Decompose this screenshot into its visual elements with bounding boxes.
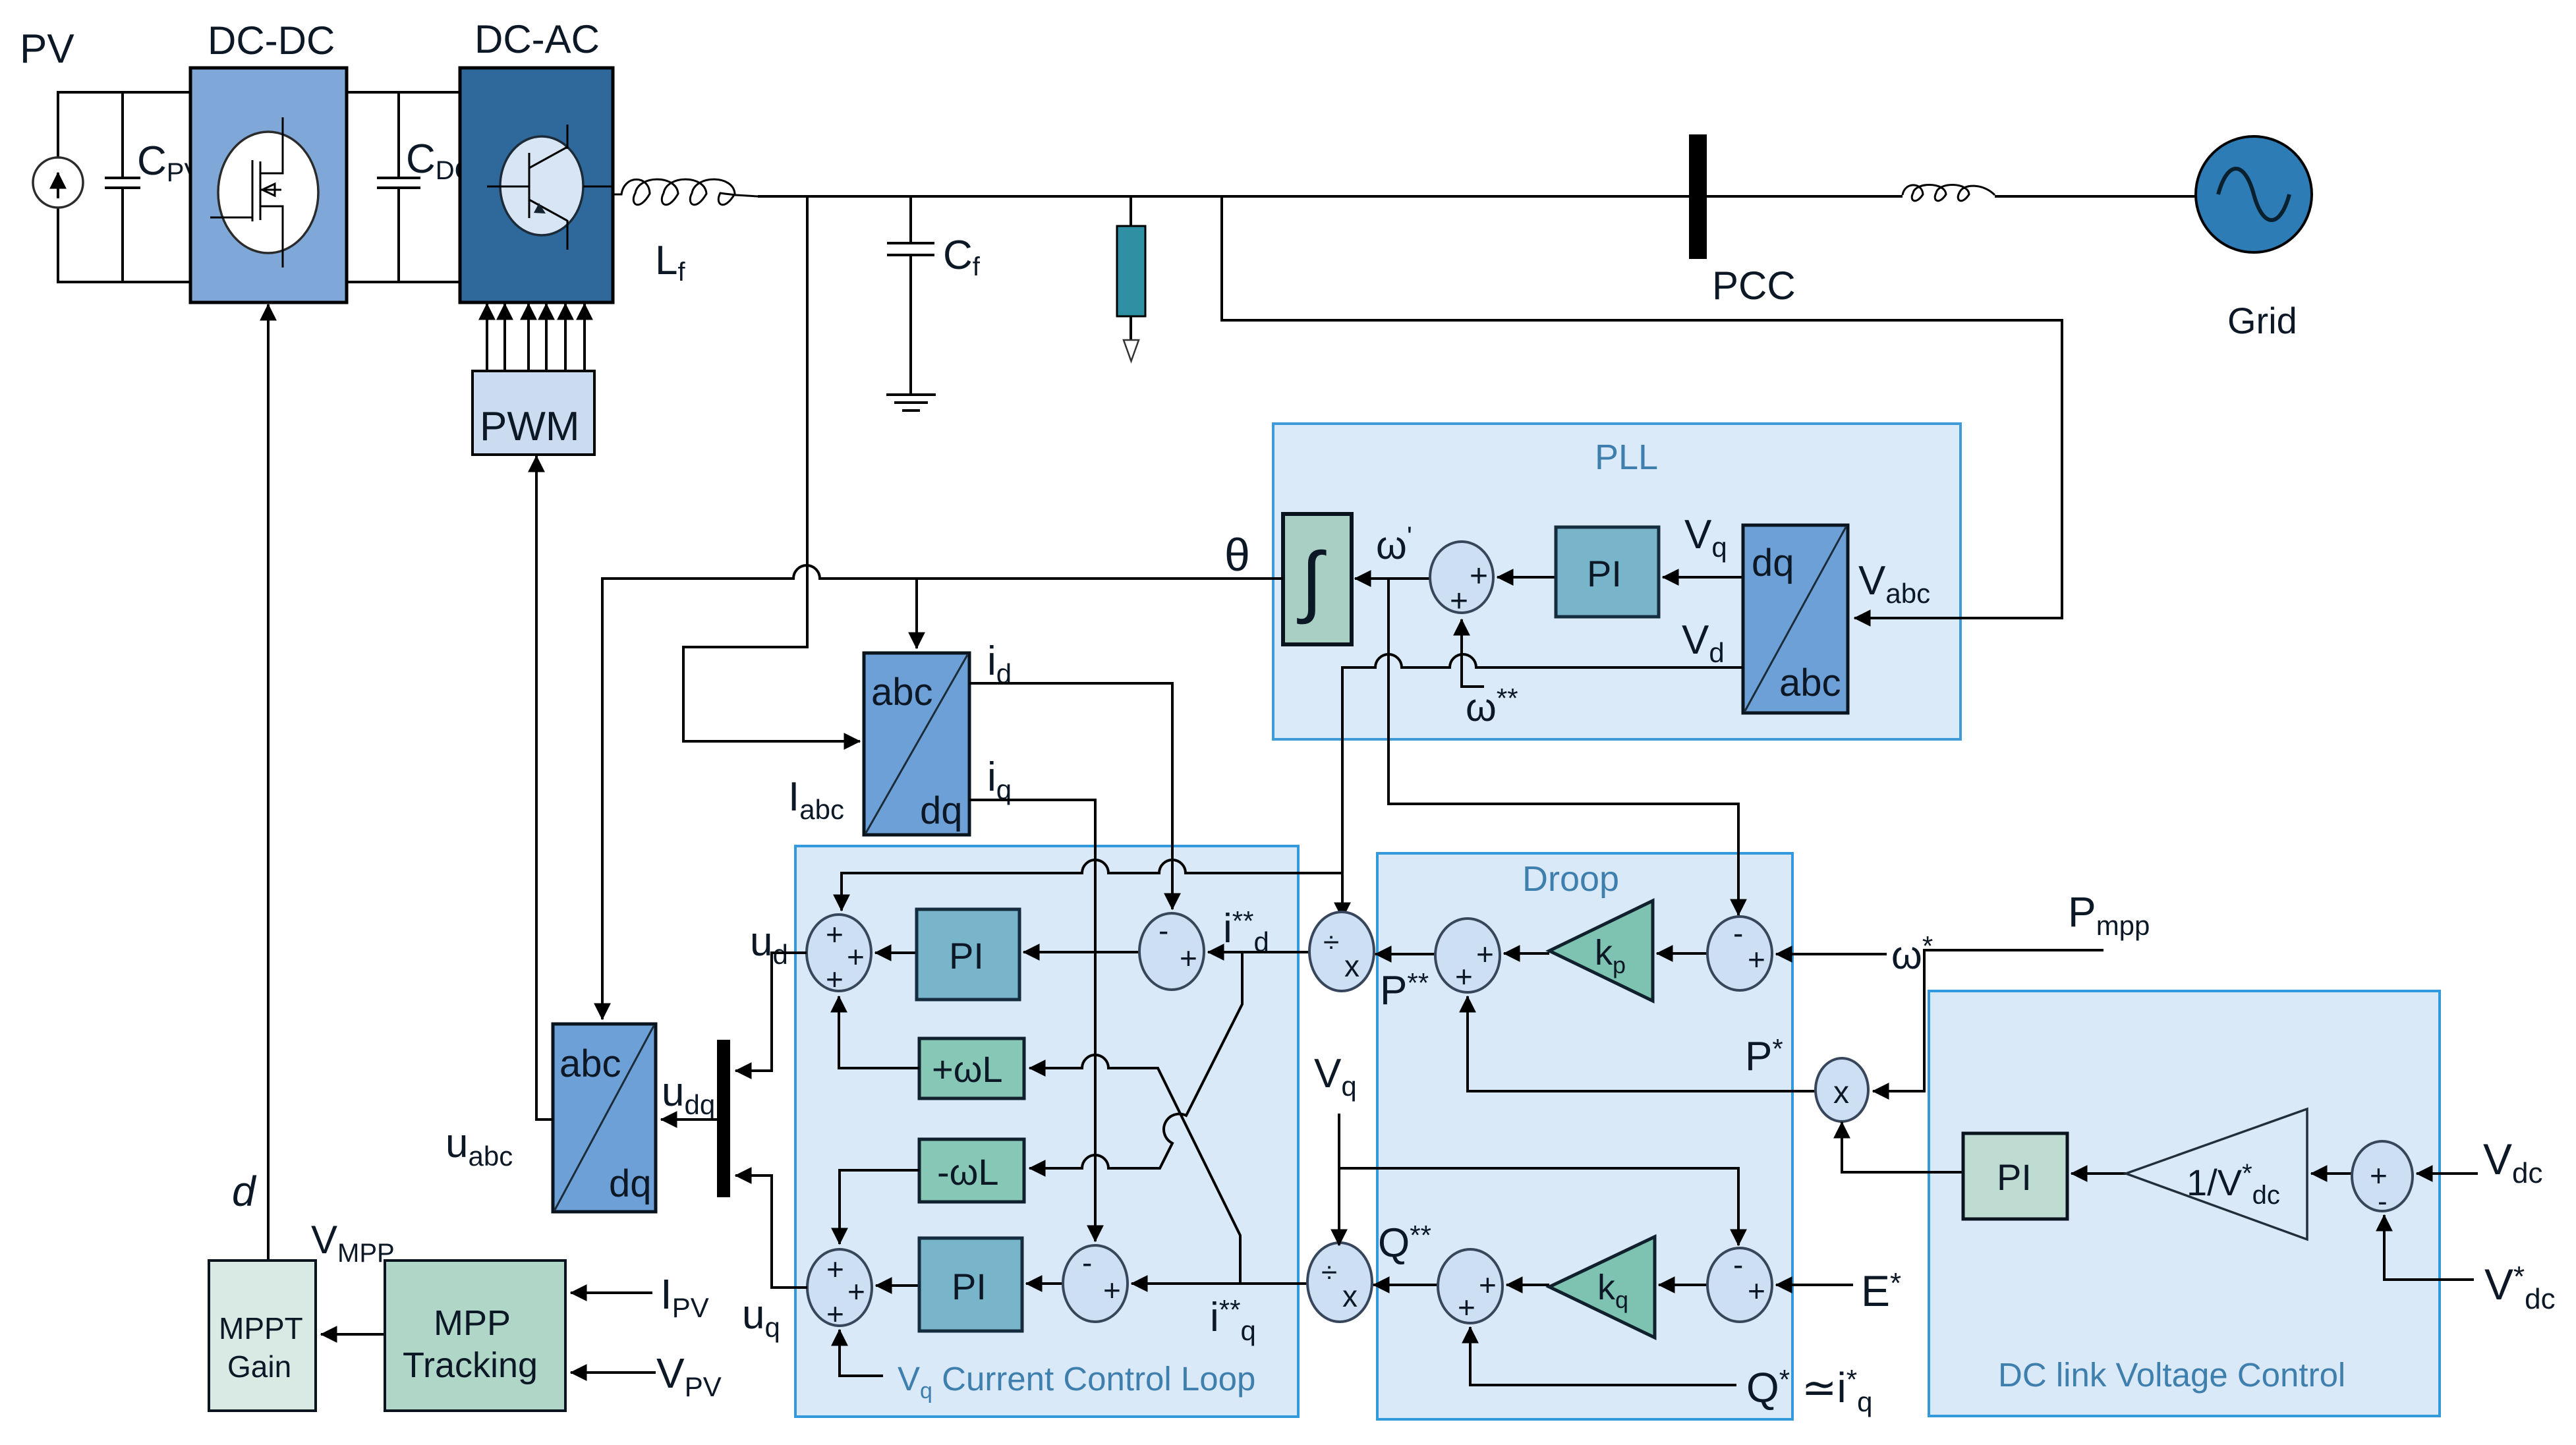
svg-text:-: - — [1082, 1245, 1092, 1280]
svg-text:DC link Voltage Control: DC link Voltage Control — [1998, 1356, 2345, 1394]
summing junction omega — [1707, 916, 1772, 990]
inductor Lf — [613, 179, 758, 205]
svg-text:dq: dq — [1752, 542, 1794, 584]
wire Vdc — [2417, 1172, 2478, 1175]
wire id — [969, 683, 1172, 909]
svg-text:∫: ∫ — [1297, 536, 1327, 625]
svg-text:+: + — [1455, 959, 1473, 994]
wire uq out — [735, 1176, 807, 1288]
wire IPV — [571, 1291, 652, 1294]
svg-text:x: x — [1342, 1279, 1358, 1313]
svg-text:dq: dq — [609, 1162, 652, 1205]
svg-text:PI: PI — [949, 935, 984, 977]
wire minus-omega-L out — [840, 1170, 919, 1244]
divider Q to iq — [1307, 1243, 1372, 1322]
svg-text:+: + — [847, 940, 865, 974]
box DC link Voltage Control — [1929, 991, 2440, 1416]
wires PWM gate signals — [487, 304, 585, 371]
inductor grid side — [1903, 184, 1995, 200]
wire PI1 to sum ud — [875, 951, 917, 954]
wire plus-omega-L out — [839, 996, 919, 1068]
wire omega-star — [1776, 953, 1887, 955]
svg-text:abc: abc — [1779, 662, 1841, 704]
block dq-abc modulation — [553, 1024, 656, 1212]
svg-text:+: + — [847, 1274, 865, 1309]
summing junction uq — [807, 1249, 872, 1331]
summing junction id error — [1139, 913, 1204, 990]
svg-text:PI: PI — [952, 1266, 987, 1307]
block PI PLL — [1556, 527, 1659, 617]
wire PI to sum — [1497, 576, 1556, 579]
wire i-star-star-q — [1131, 1282, 1309, 1285]
block minus-omega-L — [919, 1139, 1024, 1202]
wire Iabc sense — [683, 196, 860, 741]
summing junction ud — [807, 915, 871, 996]
svg-text:+: + — [826, 917, 844, 951]
wire Qsum to divider Q — [1373, 1284, 1438, 1286]
ground — [886, 395, 936, 411]
svg-text:d: d — [232, 1168, 257, 1215]
wire Vdc-star — [2384, 1215, 2474, 1280]
svg-text:abc: abc — [559, 1042, 621, 1085]
svg-text:+: + — [1748, 942, 1765, 977]
wire P-star — [1468, 996, 1817, 1091]
source Grid — [2196, 136, 2312, 252]
block MPPT Gain — [209, 1261, 316, 1411]
svg-text:+: + — [826, 1297, 844, 1331]
wire theta — [1355, 577, 1430, 580]
multiplier Pmpp — [1816, 1058, 1868, 1121]
block dq-abc PLL — [1743, 525, 1848, 713]
summing junction iq error — [1063, 1245, 1128, 1322]
wire uabc to PWM — [536, 456, 553, 1119]
svg-text:+: + — [826, 1252, 844, 1286]
load resistor — [1117, 226, 1145, 316]
gain 1-over-Vdc — [2126, 1109, 2307, 1239]
box PLL — [1273, 424, 1961, 739]
svg-text:-ωL: -ωL — [937, 1151, 999, 1193]
svg-text:Vq Current Control Loop: Vq Current Control Loop — [898, 1360, 1255, 1403]
wire Vq to PI — [1663, 576, 1743, 579]
svg-text:Droop: Droop — [1522, 859, 1619, 899]
capacitor Cf — [887, 196, 934, 393]
svg-text:x: x — [1344, 949, 1360, 983]
svg-text:+: + — [826, 962, 844, 996]
wire PI2 to sum uq — [876, 1284, 919, 1287]
wire Psum to divider P — [1375, 953, 1435, 955]
gain kq — [1549, 1237, 1655, 1338]
summing junction P — [1435, 919, 1500, 994]
svg-text:+ωL: +ωL — [932, 1048, 1003, 1090]
wire Vd feedforward — [842, 860, 1342, 911]
block MPP Tracking — [385, 1261, 565, 1411]
svg-text:+: + — [1470, 559, 1488, 594]
svg-text:+: + — [1476, 937, 1494, 971]
wire Pmpp — [1873, 950, 2104, 1091]
svg-text:θ: θ — [1224, 529, 1250, 581]
svg-text:+: + — [1103, 1273, 1121, 1307]
svg-text:DC-AC: DC-AC — [474, 17, 600, 61]
wire DC-DC to DC-AC — [347, 92, 460, 282]
box Droop — [1377, 853, 1792, 1419]
wire gain to PI3 — [2071, 1172, 2126, 1175]
block PI dclink — [1963, 1133, 2067, 1219]
svg-text:+: + — [1450, 584, 1468, 619]
svg-text:Grid: Grid — [2227, 300, 2297, 341]
svg-text:÷: ÷ — [1323, 926, 1339, 959]
wire i-star-star-d — [1208, 951, 1311, 953]
IGBT Q2 — [487, 125, 613, 250]
gain kp — [1549, 901, 1653, 1001]
wire omega-star-star — [1462, 619, 1484, 687]
summing junction E — [1707, 1247, 1772, 1322]
converter DC-DC — [190, 68, 347, 302]
PCC bar — [1689, 134, 1707, 259]
svg-text:Gain: Gain — [227, 1349, 291, 1384]
svg-text:PI: PI — [1997, 1156, 2032, 1198]
bus bar udq — [717, 1040, 730, 1197]
svg-text:PLL: PLL — [1595, 438, 1658, 477]
wire E-star — [1776, 1284, 1853, 1286]
svg-text:PV: PV — [20, 26, 74, 72]
current source PV — [33, 157, 83, 208]
svg-text:+: + — [1479, 1268, 1497, 1302]
svg-text:-: - — [2378, 1185, 2388, 1218]
wire Vabc sense — [1222, 196, 2062, 618]
wire AC bus — [758, 195, 2196, 198]
wire ud out — [735, 953, 807, 1071]
wire MPP to MPPT — [321, 1333, 385, 1336]
svg-text:-: - — [1733, 1247, 1743, 1282]
wire d duty cycle — [267, 304, 270, 1261]
divider P to id — [1309, 912, 1374, 991]
capacitor CPV — [105, 92, 140, 282]
svg-text:MPP: MPP — [434, 1303, 511, 1343]
svg-text:dq: dq — [920, 789, 963, 832]
summing junction Q — [1438, 1249, 1503, 1324]
svg-text:-: - — [1159, 913, 1168, 948]
svg-text:PCC: PCC — [1712, 264, 1796, 308]
svg-text:÷: ÷ — [1321, 1257, 1337, 1289]
inverter DC-AC — [460, 68, 613, 302]
block PI current q — [919, 1238, 1022, 1331]
summing junction Vdc — [2352, 1141, 2413, 1218]
svg-text:+: + — [1180, 941, 1197, 975]
wire sum iq to PI2 — [1026, 1282, 1063, 1285]
wire Vq branch to E sum — [1339, 1168, 1738, 1245]
svg-text:+: + — [1748, 1274, 1765, 1308]
open arrow load — [1124, 340, 1139, 361]
block PWM — [472, 371, 594, 455]
wire omega-prime to droop — [1388, 577, 1738, 915]
wire theta branch to abc-dq — [915, 579, 918, 648]
svg-text:DC-DC: DC-DC — [208, 18, 335, 63]
svg-text:+: + — [1458, 1290, 1475, 1324]
wire kq to Qsum — [1506, 1284, 1549, 1286]
wire PI3 out to multiplier — [1842, 1122, 1963, 1172]
wire E sum to kq — [1659, 1284, 1707, 1286]
MOSFET Q1 — [210, 117, 318, 268]
wire VPV — [571, 1371, 656, 1374]
block abc-dq current — [864, 653, 969, 835]
wire udq to dq-abc — [661, 1118, 717, 1121]
svg-text:abc: abc — [871, 671, 933, 714]
wire load tap — [1130, 196, 1132, 339]
svg-text:-: - — [1733, 916, 1743, 950]
box Current Control Loop — [795, 846, 1298, 1417]
svg-text:Tracking: Tracking — [403, 1346, 538, 1385]
svg-text:MPPT: MPPT — [219, 1311, 303, 1346]
wire iq — [969, 800, 1095, 1241]
wire cross coupling q — [1029, 1055, 1240, 1284]
wire PV loop — [58, 92, 190, 282]
wire Vq to divider Q — [1338, 1114, 1340, 1245]
wire Q-star — [1470, 1327, 1736, 1385]
wire kp to Psum — [1504, 952, 1549, 955]
wire theta to blocks — [602, 565, 1283, 1019]
svg-text:PI: PI — [1587, 553, 1622, 594]
wire sum Vdc to gain — [2311, 1172, 2352, 1175]
integrator block — [1283, 514, 1352, 644]
wire cross coupling d — [1029, 952, 1242, 1168]
svg-text:ω': ω' — [1376, 521, 1412, 567]
svg-text:PWM: PWM — [480, 404, 580, 449]
svg-text:x: x — [1833, 1075, 1849, 1110]
wire sum id to PI1 — [1023, 951, 1139, 953]
wire Vd from dq-abc — [1342, 654, 1743, 919]
block PI current d — [917, 909, 1019, 1000]
block plus-omega-L — [919, 1038, 1024, 1098]
wire Vq into sum uq — [840, 1330, 883, 1376]
capacitor CDC — [377, 92, 420, 282]
wire omega sum to kp — [1657, 952, 1707, 955]
summing junction PLL — [1430, 542, 1493, 619]
